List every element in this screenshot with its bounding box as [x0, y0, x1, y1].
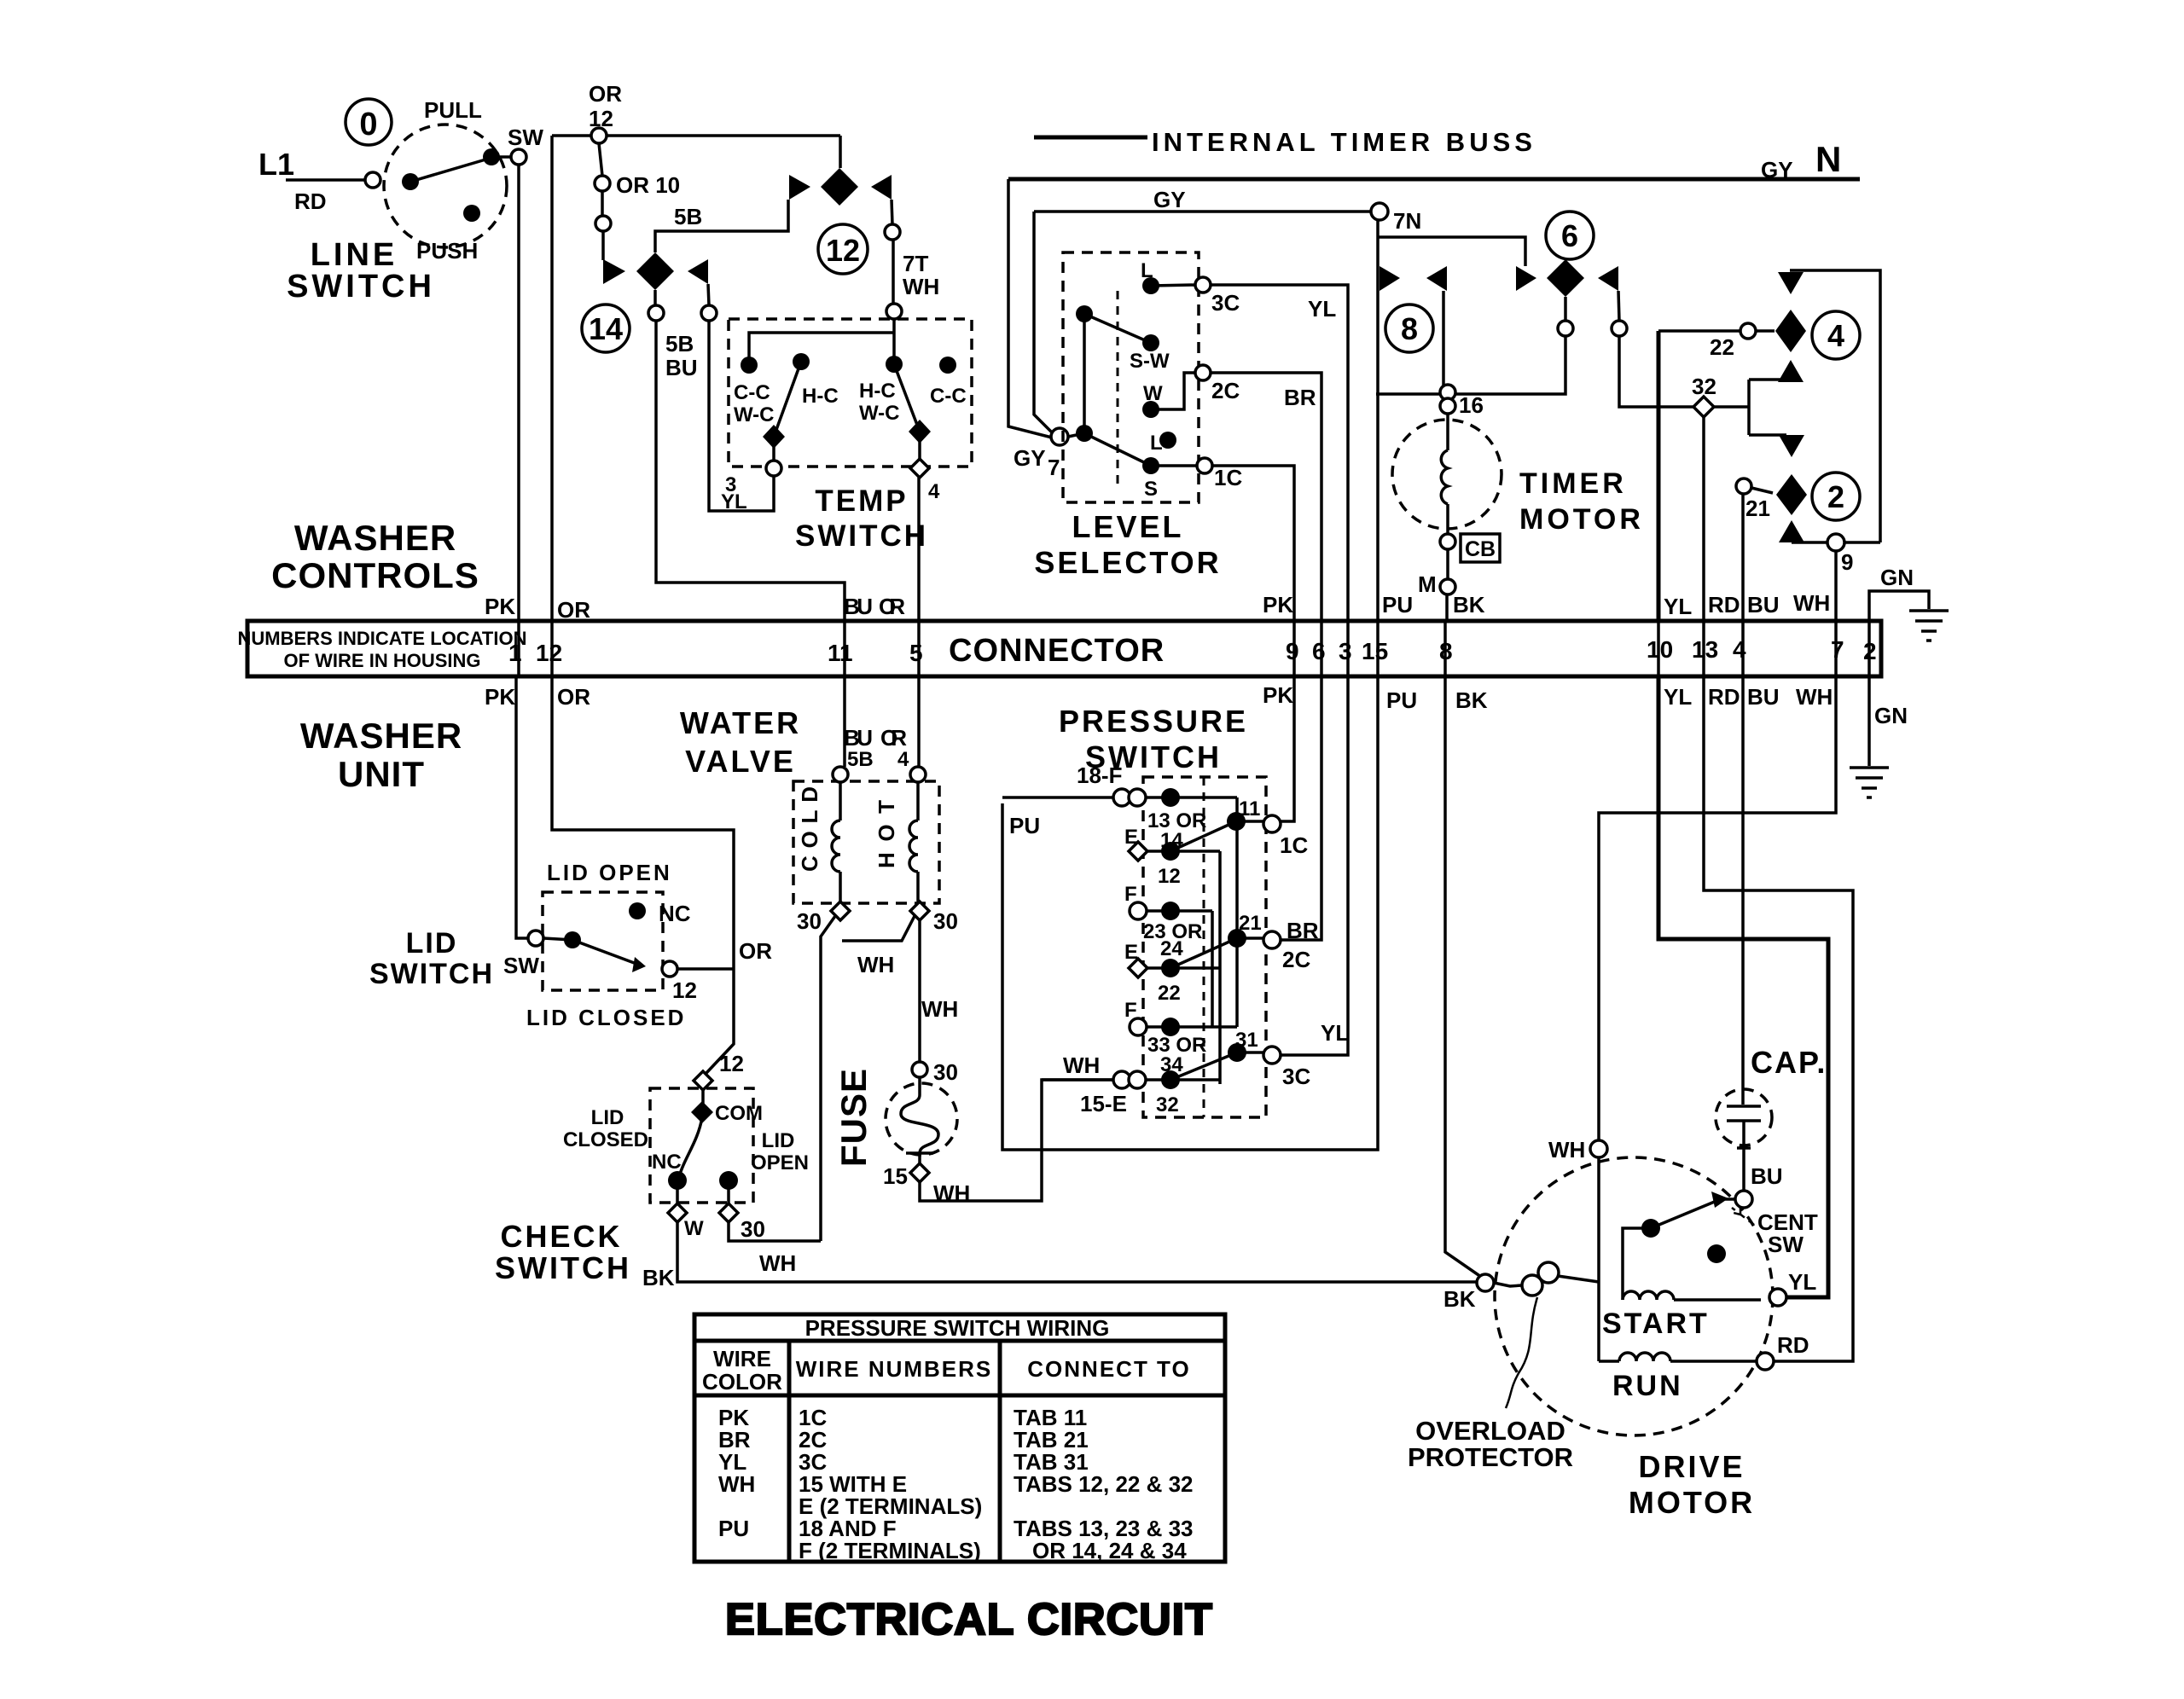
- terminal E top (open diamond): [1129, 842, 1147, 861]
- svg-text:PK: PK: [485, 594, 515, 619]
- line switch dashed circle: [384, 125, 507, 247]
- terminal W (open diamond): [668, 1203, 687, 1222]
- svg-text:CONTROLS: CONTROLS: [271, 555, 479, 595]
- cam switch 6 right arrow: [1598, 266, 1618, 291]
- svg-text:HOT: HOT: [874, 800, 899, 868]
- wire cam12 right arrow down to 7T: [892, 200, 892, 224]
- svg-text:PK: PK: [1263, 682, 1293, 708]
- svg-text:11: 11: [828, 640, 853, 666]
- water valve dashed box: [793, 781, 939, 903]
- svg-text:BK: BK: [1443, 1286, 1476, 1312]
- terminal 7T: [885, 224, 900, 240]
- top bracket for cam4: [1790, 270, 1880, 542]
- svg-text:OPEN: OPEN: [751, 1151, 809, 1174]
- svg-text:PRESSURE: PRESSURE: [1059, 704, 1248, 739]
- wire arm to SW: [491, 155, 511, 159]
- wire into temp switch: [892, 319, 896, 357]
- terminal BU motor: [1735, 1191, 1752, 1208]
- terminal lid 12: [662, 961, 677, 977]
- wire F bottom line: [1147, 1025, 1237, 1029]
- node line switch common: [402, 173, 419, 190]
- terminal 4 (open diamond): [910, 459, 929, 478]
- svg-text:SWITCH: SWITCH: [495, 1250, 631, 1285]
- wire 5B link (cam14 top to cam12 left): [655, 200, 788, 252]
- svg-text:SW: SW: [508, 125, 543, 150]
- svg-text:WIRE NUMBERS: WIRE NUMBERS: [796, 1356, 993, 1382]
- wire BK M to connector 8: [1445, 594, 1449, 621]
- svg-text:DRIVE: DRIVE: [1638, 1449, 1745, 1484]
- wire 2C to x1549 down to connector 6: [1211, 373, 1321, 621]
- terminal fuse 15 (open diamond): [910, 1163, 929, 1182]
- svg-text:GN: GN: [1880, 565, 1914, 590]
- cam switch 8 right arrow: [1426, 266, 1447, 291]
- wire E top line: [1147, 849, 1220, 853]
- terminal fuse 30: [912, 1062, 927, 1077]
- cent sw pointer dash: [1732, 1208, 1754, 1225]
- cam switch 6 diamond: [1547, 259, 1584, 297]
- svg-text:OR 10: OR 10: [616, 172, 680, 198]
- wire BR 2C up to connector 6: [1281, 676, 1321, 940]
- svg-text:5B: 5B: [847, 748, 874, 771]
- wire cam6 right to YL bus: [1619, 336, 1658, 407]
- svg-text:RUN: RUN: [1612, 1370, 1683, 1402]
- svg-text:N: N: [1815, 139, 1841, 179]
- wire BK from W to drive motor: [677, 1222, 1478, 1282]
- wire WH 9 down to connector 7: [1834, 551, 1838, 621]
- wire GY line: [1034, 210, 1372, 213]
- check switch dashed box: [650, 1088, 753, 1203]
- terminal E mid (open diamond): [1129, 959, 1147, 977]
- terminal F mid (open pentagon): [1130, 902, 1147, 919]
- switch arm temp left: [774, 362, 801, 437]
- circled 12: [818, 224, 868, 274]
- terminal OR 12: [591, 128, 607, 143]
- svg-text:TABS 12, 22 & 32: TABS 12, 22 & 32: [1014, 1471, 1194, 1497]
- svg-text:UNIT: UNIT: [338, 754, 425, 794]
- svg-text:SW: SW: [1768, 1232, 1804, 1257]
- svg-text:WH: WH: [759, 1250, 796, 1276]
- terminal 16 lower: [1440, 398, 1455, 414]
- svg-text:16: 16: [1459, 392, 1484, 418]
- svg-text:LID OPEN: LID OPEN: [547, 860, 672, 885]
- wire selector pivot bus: [1083, 314, 1086, 433]
- cam switch 4 top arrow: [1778, 272, 1804, 294]
- svg-text:CB: CB: [1465, 537, 1496, 561]
- wire WH bracket below valve: [821, 916, 915, 1241]
- terminal 15-E double circles: [1113, 1071, 1130, 1088]
- svg-text:WIRE: WIRE: [713, 1346, 771, 1371]
- wire cam2 bottom to 9: [1792, 541, 1828, 544]
- wire RD 32 down to connector 13: [1702, 417, 1705, 621]
- svg-text:1C: 1C: [1214, 465, 1242, 490]
- terminal valve cold top: [833, 767, 848, 782]
- svg-text:3C: 3C: [1211, 290, 1240, 316]
- wire YL bus down to connector 10: [1657, 331, 1661, 621]
- terminal L1: [365, 172, 380, 188]
- svg-text:MOTOR: MOTOR: [1629, 1485, 1755, 1520]
- svg-text:4: 4: [928, 480, 940, 503]
- terminal cam6 right: [1612, 321, 1627, 336]
- svg-text:WH: WH: [903, 274, 939, 299]
- contact dot W: [1142, 401, 1159, 418]
- svg-text:CAP.: CAP.: [1751, 1045, 1827, 1080]
- svg-text:12: 12: [719, 1051, 744, 1076]
- svg-text:15-E: 15-E: [1080, 1091, 1127, 1116]
- svg-text:PK: PK: [1263, 592, 1293, 618]
- contact diamond COM: [691, 1101, 713, 1123]
- wire RD below connector jog: [1704, 676, 1853, 1361]
- pressure internal bus right: [1235, 797, 1239, 1027]
- svg-text:F (2 TERMINALS): F (2 TERMINALS): [799, 1538, 981, 1563]
- terminal WH motor: [1590, 1140, 1607, 1157]
- svg-text:12: 12: [1158, 865, 1181, 888]
- svg-text:OR 14, 24 & 34: OR 14, 24 & 34: [1032, 1538, 1187, 1563]
- wire box left edge to GY7: [1008, 179, 1052, 438]
- svg-text:30: 30: [933, 1059, 958, 1085]
- svg-text:S-W: S-W: [1130, 350, 1170, 373]
- cam switch 6 left arrow: [1516, 266, 1536, 291]
- cam switch 8 left arrow: [1380, 266, 1400, 291]
- svg-text:32: 32: [1692, 374, 1716, 399]
- wire top horizontal 12-line: [552, 134, 840, 137]
- svg-text:30: 30: [741, 1216, 765, 1242]
- svg-text:CONNECTOR: CONNECTOR: [949, 633, 1165, 669]
- svg-text:VALVE: VALVE: [685, 744, 796, 779]
- wire 3C to x1580 down to connector 3: [1211, 285, 1348, 621]
- svg-text:LID: LID: [591, 1106, 624, 1129]
- arm section1: [1170, 821, 1236, 851]
- svg-text:SW: SW: [503, 953, 539, 978]
- lid arm arrowhead: [632, 957, 646, 972]
- svg-text:CONNECT TO: CONNECT TO: [1027, 1356, 1190, 1382]
- circled 4: [1812, 311, 1860, 359]
- switch arm line switch: [410, 158, 491, 182]
- wire diamond to 3YL terminal: [772, 437, 775, 461]
- contact dot C-C left: [741, 357, 758, 374]
- cam switch 14 right arrow: [688, 259, 708, 284]
- terminal 1C pentagon: [1263, 815, 1281, 832]
- cam switch 12 diamond: [821, 168, 858, 206]
- svg-text:1C: 1C: [1280, 832, 1308, 858]
- terminal 30 hot (open diamond): [910, 902, 929, 920]
- terminal M: [1440, 579, 1455, 594]
- svg-text:WH: WH: [857, 952, 894, 977]
- svg-text:5B: 5B: [674, 204, 702, 229]
- svg-text:WH: WH: [1548, 1137, 1585, 1163]
- svg-text:OR: OR: [557, 597, 590, 623]
- svg-text:NC: NC: [652, 1151, 682, 1174]
- svg-text:WASHER: WASHER: [294, 518, 456, 558]
- svg-text:YL: YL: [1308, 296, 1336, 322]
- selector arm2: [1068, 433, 1151, 466]
- svg-text:9: 9: [1286, 638, 1299, 664]
- terminal GY 7: [1051, 428, 1068, 445]
- svg-text:OF WIRE IN HOUSING: OF WIRE IN HOUSING: [284, 650, 481, 671]
- svg-text:5B: 5B: [665, 331, 694, 357]
- svg-text:PROTECTOR: PROTECTOR: [1408, 1442, 1573, 1472]
- svg-text:RD: RD: [1777, 1332, 1809, 1358]
- svg-text:FUSE: FUSE: [834, 1068, 874, 1167]
- level selector dashed box: [1063, 252, 1199, 502]
- wire diamond to terminal 4: [918, 432, 921, 461]
- contact dot S-W: [1142, 334, 1159, 351]
- contact dot 11: [1227, 812, 1246, 831]
- svg-text:32: 32: [1156, 1093, 1179, 1116]
- wire OR below connector to valve: [917, 676, 921, 767]
- contact dot selector arm1 pivot: [1076, 305, 1093, 322]
- wire cam6 mid to 16 junction: [1376, 336, 1565, 394]
- wire or chain: [599, 143, 603, 260]
- wire 7T down: [892, 240, 895, 304]
- cent arm arrowhead: [1711, 1192, 1728, 1208]
- svg-text:8: 8: [1401, 311, 1418, 346]
- wire 9 to bracket: [1844, 541, 1880, 544]
- wire WH below connector jog: [1599, 676, 1836, 1141]
- svg-text:TIMER: TIMER: [1519, 467, 1627, 500]
- level selector inner dashed line: [1117, 291, 1119, 490]
- wire 18-F line: [1002, 796, 1237, 799]
- wire E mid line: [1147, 966, 1220, 970]
- svg-text:PU: PU: [718, 1516, 749, 1541]
- cam switch 2 diamond: [1776, 474, 1807, 515]
- svg-text:BU: BU: [1747, 684, 1780, 710]
- contact dot 13-14: [1161, 788, 1180, 807]
- capacitor plates: [1727, 1106, 1761, 1148]
- svg-text:SWITCH: SWITCH: [287, 269, 435, 304]
- terminal 18-F double circles: [1113, 789, 1130, 806]
- svg-text:RD: RD: [1708, 684, 1740, 710]
- wire 12 to COM: [701, 1090, 705, 1104]
- terminal valve hot top: [910, 767, 926, 782]
- svg-text:31: 31: [1235, 1029, 1258, 1052]
- cam switch 4 bottom arrow: [1778, 360, 1804, 382]
- wire PU below connector: [1002, 676, 1378, 1150]
- svg-text:GY: GY: [1153, 187, 1186, 212]
- wire cam14 right arrow down: [708, 284, 709, 305]
- svg-text:WASHER: WASHER: [300, 716, 462, 756]
- terminal SW: [511, 149, 526, 165]
- svg-text:WH: WH: [1793, 590, 1830, 616]
- svg-text:BU: BU: [844, 594, 873, 619]
- svg-text:C-C: C-C: [930, 385, 967, 408]
- svg-text:YL: YL: [1664, 684, 1692, 710]
- svg-text:15: 15: [883, 1163, 908, 1189]
- wire W to 2C: [1151, 373, 1195, 409]
- wire 21 to 2C: [1237, 936, 1264, 940]
- connector ticks: [519, 621, 1869, 676]
- svg-text:PK: PK: [485, 684, 515, 710]
- svg-text:BU: BU: [1747, 592, 1780, 618]
- svg-text:7: 7: [1831, 636, 1844, 663]
- svg-text:22: 22: [1710, 334, 1734, 360]
- check switch arm: [678, 1117, 702, 1180]
- terminal 22: [1740, 323, 1756, 339]
- svg-text:5: 5: [909, 640, 923, 666]
- terminal F bottom (open pentagon): [1130, 1018, 1147, 1035]
- cam switch 2 bottom arrow: [1779, 520, 1804, 542]
- circled 2: [1812, 473, 1860, 520]
- svg-text:22: 22: [1158, 982, 1181, 1005]
- svg-text:6: 6: [1561, 218, 1578, 253]
- contact dot L top: [1142, 277, 1159, 294]
- svg-text:W-C: W-C: [859, 402, 900, 425]
- svg-text:SELECTOR: SELECTOR: [1034, 545, 1221, 580]
- cam switch 4 diamond: [1775, 310, 1806, 352]
- wire cam14 diamond bottom to terminal: [653, 290, 657, 305]
- svg-text:BR: BR: [1284, 385, 1316, 410]
- legend line: [1034, 136, 1147, 140]
- svg-text:7: 7: [1048, 455, 1060, 480]
- svg-text:YL: YL: [721, 490, 747, 513]
- svg-text:PUSH: PUSH: [416, 238, 478, 264]
- wire GN top: [1869, 591, 1929, 621]
- svg-text:BK: BK: [642, 1265, 675, 1290]
- svg-text:WH: WH: [921, 996, 958, 1022]
- svg-text:W-C: W-C: [734, 403, 775, 426]
- svg-text:NUMBERS INDICATE LOCATION: NUMBERS INDICATE LOCATION: [238, 628, 527, 649]
- svg-text:OR: OR: [557, 684, 590, 710]
- wire 1C to x1517 down to connector 9: [1212, 466, 1294, 621]
- terminal temp feed: [701, 305, 717, 321]
- wire PK down to lid switch: [516, 676, 528, 938]
- table title row line: [694, 1339, 1225, 1343]
- wire 3YL jog to temp switch: [709, 321, 774, 511]
- svg-text:CHECK: CHECK: [500, 1219, 622, 1254]
- wire cam6 right arrow down: [1618, 291, 1619, 321]
- svg-text:24: 24: [1160, 937, 1183, 960]
- table outer box: [694, 1314, 1225, 1562]
- wire YL 3C up to connector 3: [1281, 676, 1348, 1055]
- contact dot check right: [719, 1171, 738, 1190]
- cam switch 14 diamond: [636, 252, 674, 290]
- svg-text:30: 30: [933, 908, 958, 934]
- terminal 3 YL: [766, 461, 781, 476]
- circled 6: [1546, 212, 1594, 259]
- svg-text:PRESSURE SWITCH WIRING: PRESSURE SWITCH WIRING: [805, 1315, 1110, 1341]
- wire BK below connector down: [1445, 676, 1481, 1277]
- svg-text:7T: 7T: [903, 251, 928, 276]
- cam switch 2 top arrow: [1779, 435, 1804, 457]
- wire N buss: [1008, 177, 1860, 182]
- svg-text:4: 4: [1827, 318, 1844, 353]
- svg-text:BU: BU: [844, 725, 873, 751]
- svg-text:H-C: H-C: [859, 380, 896, 403]
- node line switch arm tip: [483, 148, 500, 165]
- wire right dot to 30: [727, 1180, 730, 1205]
- selector arm1: [1084, 314, 1151, 343]
- svg-text:LID CLOSED: LID CLOSED: [526, 1005, 686, 1030]
- contact dot 33-34: [1161, 1018, 1180, 1036]
- contact dot L mid: [1159, 432, 1176, 449]
- svg-text:OR: OR: [880, 725, 907, 751]
- svg-text:12: 12: [826, 233, 860, 268]
- arm section2: [1170, 938, 1237, 968]
- contact dot cent pivot: [1641, 1219, 1660, 1238]
- svg-text:NC: NC: [659, 901, 691, 926]
- svg-text:BU: BU: [1751, 1163, 1783, 1189]
- contact dot 21: [1228, 929, 1246, 948]
- wire 21 to cam2 diamond: [1751, 488, 1773, 493]
- cold solenoid coil: [832, 782, 840, 903]
- svg-text:CLOSED: CLOSED: [563, 1128, 648, 1151]
- overload protector circles: [1522, 1275, 1542, 1296]
- svg-text:ELECTRICAL CIRCUIT: ELECTRICAL CIRCUIT: [725, 1595, 1213, 1644]
- wire WH motor down: [1597, 1157, 1600, 1361]
- terminal temp switch top: [886, 304, 902, 319]
- svg-text:PULL: PULL: [424, 97, 482, 123]
- terminal OR 10: [595, 176, 610, 191]
- lid switch dashed box: [543, 892, 663, 990]
- wire 22 bus: [1658, 329, 1740, 333]
- circled 8: [1385, 304, 1433, 352]
- wire WH hot30 down to fuse: [918, 920, 921, 1062]
- contact dot lid pivot: [564, 931, 581, 948]
- svg-text:L1: L1: [258, 147, 294, 182]
- svg-text:YL: YL: [1788, 1269, 1816, 1295]
- svg-text:BK: BK: [1453, 592, 1485, 618]
- wire BU below connector to cap: [1741, 676, 1745, 1105]
- terminal 2C pentagon: [1263, 931, 1281, 948]
- wire YL below connector jog: [1658, 676, 1828, 1297]
- svg-text:0: 0: [359, 107, 377, 142]
- moving diamond temp right: [909, 420, 931, 444]
- svg-text:OR: OR: [879, 594, 905, 619]
- terminal RD motor: [1757, 1353, 1774, 1370]
- capacitor dashed circle: [1716, 1089, 1772, 1145]
- contact dot S: [1142, 457, 1159, 474]
- switch arm temp right: [894, 364, 920, 432]
- contact dot check NC: [668, 1171, 687, 1190]
- wire OR temp4 down to connector 5: [917, 478, 921, 621]
- wire cam8 right down to 16: [1442, 291, 1445, 386]
- terminal 30 cold (open diamond): [831, 902, 850, 920]
- arm section3: [1170, 1052, 1237, 1080]
- terminal 7N: [1371, 203, 1388, 220]
- svg-text:3C: 3C: [1282, 1064, 1310, 1089]
- terminal lid SW: [528, 931, 543, 946]
- contact dot 32: [1161, 1070, 1180, 1089]
- wire NC to W: [676, 1180, 679, 1205]
- wire cam6 diamond down: [1564, 297, 1567, 321]
- svg-text:RD: RD: [1708, 592, 1740, 618]
- svg-text:H-C: H-C: [802, 385, 839, 408]
- svg-text:LID: LID: [406, 927, 458, 960]
- svg-text:LINE: LINE: [311, 237, 398, 273]
- wire temp internal top link: [749, 333, 893, 365]
- wire L1 lead: [286, 178, 364, 182]
- svg-text:12: 12: [536, 640, 562, 666]
- wire GN bottom from connector 2: [1867, 676, 1871, 766]
- table header row line: [694, 1394, 1225, 1398]
- svg-text:BU: BU: [665, 355, 698, 380]
- svg-text:YL: YL: [1321, 1020, 1349, 1046]
- timer motor coil: [1441, 414, 1448, 534]
- cam switch 12 left arrow: [789, 175, 810, 200]
- terminal CB top: [1440, 534, 1455, 549]
- pressure switch outer dashed box: [1143, 777, 1266, 1117]
- start winding coil: [1623, 1291, 1761, 1300]
- cam switch 12 right arrow: [871, 175, 892, 200]
- svg-text:30: 30: [797, 908, 822, 934]
- wire PK 1C up to connector 9: [1281, 676, 1294, 821]
- terminal 9: [1827, 534, 1844, 551]
- pressure switch inner dashed line: [1203, 777, 1205, 1117]
- svg-text:M: M: [1418, 571, 1437, 597]
- svg-text:21: 21: [1239, 912, 1262, 935]
- svg-text:2C: 2C: [1282, 947, 1310, 972]
- terminal 3C: [1195, 277, 1211, 293]
- svg-text:PU: PU: [1009, 813, 1040, 838]
